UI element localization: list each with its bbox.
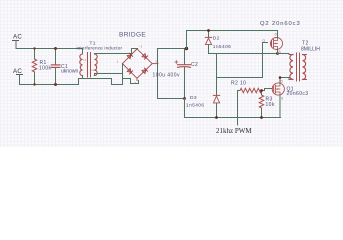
- node AC top: [13, 34, 23, 49]
- bridge rectifier: [117, 31, 159, 85]
- resistor R2: [231, 80, 265, 92]
- wire top AC bus: [16, 48, 83, 50]
- junction R1 top: [33, 47, 35, 49]
- svg-text:8MILLIH: 8MILLIH: [301, 46, 320, 52]
- bridge diode top-left: [127, 53, 133, 59]
- wire C2 bottom to bottom bus: [185, 99, 281, 118]
- wire bridge plus riser: [158, 49, 187, 99]
- junction C2 top: [185, 47, 188, 50]
- junction D3 bottom: [215, 116, 218, 119]
- wire to bridge bottom: [123, 79, 139, 84]
- wire T1 right top to bridge top: [95, 49, 138, 55]
- wire bridge left riser: [122, 64, 124, 85]
- svg-text:D3: D3: [190, 95, 197, 101]
- svg-text:L2: L2: [92, 68, 96, 72]
- svg-text:G: G: [263, 39, 266, 43]
- svg-text:L1: L1: [84, 58, 88, 62]
- transistor Q1: [272, 80, 308, 118]
- wire T1 left bottom lead: [82, 76, 84, 79]
- svg-text:D2: D2: [213, 35, 220, 41]
- wire bottom AC bus: [20, 79, 123, 85]
- junction C2 bottom: [183, 97, 186, 100]
- wire T1 right bottom to bridge left: [95, 74, 123, 76]
- wire T1 left top lead: [82, 49, 84, 55]
- svg-text:100u 400v: 100u 400v: [153, 73, 180, 79]
- junction D2 top: [207, 29, 210, 32]
- junction R3 top: [260, 89, 263, 92]
- svg-text:AC: AC: [13, 68, 22, 75]
- svg-text:20n60c3: 20n60c3: [287, 91, 309, 97]
- svg-text:1n5406: 1n5406: [213, 44, 231, 50]
- bridge diode bottom-left: [127, 68, 133, 74]
- capacitor C2: [153, 49, 199, 99]
- wire R2 to Q1 gate: [265, 89, 272, 91]
- wire top rail: [187, 31, 278, 49]
- wire T2 left bottom to Q1 drain: [280, 78, 289, 84]
- bridge diode bottom-right: [142, 68, 148, 74]
- svg-text:D: D: [281, 80, 284, 84]
- svg-text:C2: C2: [191, 62, 198, 68]
- svg-text:S: S: [281, 97, 284, 101]
- resistor R3: [259, 91, 275, 118]
- junction R3 bottom: [260, 116, 263, 119]
- capacitor C1: [51, 49, 78, 85]
- bridge pin 2 stub: [152, 63, 158, 65]
- bridge pin ~2 stub: [136, 78, 138, 80]
- svg-text:AC: AC: [13, 34, 22, 41]
- diode D2: [205, 31, 231, 54]
- transformer T2: [289, 41, 320, 82]
- svg-text:Q2 20n60c3: Q2 20n60c3: [260, 21, 301, 27]
- diode D3: [186, 54, 220, 118]
- junction C1 top: [54, 47, 57, 50]
- wire Q2 source to T2: [278, 53, 290, 55]
- wire PWM input: [237, 91, 239, 126]
- svg-text:BRIDGE: BRIDGE: [119, 31, 146, 38]
- svg-text:~1: ~1: [139, 45, 143, 49]
- junction R1 bottom: [33, 83, 35, 85]
- svg-text:21khz PWM: 21khz PWM: [216, 127, 252, 135]
- svg-text:R2 10: R2 10: [231, 80, 246, 86]
- transistor Q2: [260, 21, 301, 54]
- wire Q2 gate net: [217, 43, 268, 78]
- svg-text:uknown: uknown: [61, 69, 78, 75]
- junction Q2 source: [276, 52, 279, 55]
- bridge diode top-right: [142, 54, 148, 60]
- svg-text:100k: 100k: [39, 65, 52, 71]
- transformer T1: [77, 40, 123, 77]
- svg-text:1: 1: [117, 60, 119, 64]
- resistor R1: [32, 49, 51, 85]
- svg-text:10k: 10k: [266, 102, 275, 108]
- node AC bottom: [13, 68, 23, 85]
- wire node N1: [209, 53, 290, 55]
- junction C1 bottom: [54, 83, 57, 86]
- svg-text:~2: ~2: [133, 81, 137, 85]
- svg-text:interference inductor: interference inductor: [77, 45, 123, 50]
- svg-text:1n5406: 1n5406: [186, 103, 204, 109]
- junction Q1 drain: [279, 76, 282, 79]
